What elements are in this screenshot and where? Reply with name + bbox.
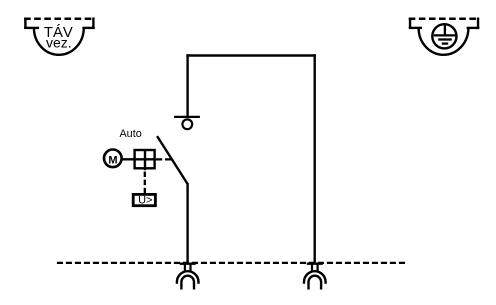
svg-text:Auto: Auto [119,128,141,140]
svg-text:M: M [108,154,117,166]
svg-text:vez.: vez. [46,35,72,51]
svg-text:U>: U> [138,195,152,207]
